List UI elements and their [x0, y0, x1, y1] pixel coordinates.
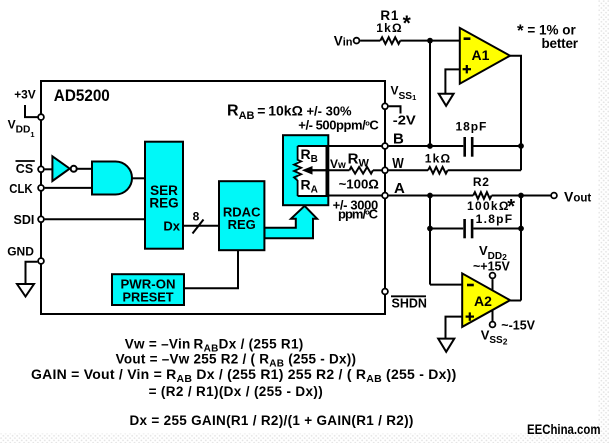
ground symbol (A2): [438, 339, 454, 352]
IC AD5200 boundary box: [41, 81, 385, 314]
wire Vin to R1: [360, 40, 380, 42]
terminal Vout: [551, 193, 557, 199]
A1 minus sign: [464, 37, 471, 40]
wire A1 output down to W line: [510, 56, 521, 171]
A2 plus sign: [466, 312, 474, 320]
op-amp A2: [462, 273, 510, 327]
svg-text:A2: A2: [474, 293, 492, 309]
wire inverter to AND gate: [77, 168, 92, 170]
wire to A2 inverting input: [430, 284, 462, 286]
wire CS to inverter: [45, 168, 53, 170]
wire W to 1k: [389, 169, 428, 171]
A1 plus sign: [463, 65, 471, 73]
wire B to 18pF: [389, 145, 464, 147]
wiper arrow Vw: [302, 166, 328, 175]
potentiometer resistor loop (white): [298, 146, 327, 196]
wire AND gate to SER REG: [132, 177, 145, 179]
junction A1 output / B feedback: [518, 143, 524, 149]
svg-text:SHDN: SHDN: [392, 297, 427, 311]
wire R2 to Vout: [492, 195, 551, 197]
pin B: [382, 143, 388, 149]
svg-text:ppm/oC: ppm/oC: [338, 207, 379, 222]
wire GND to ground: [26, 262, 38, 284]
block SER REG: [145, 142, 183, 249]
terminal VDD2: [490, 273, 496, 279]
wire A junction down to A2 input: [429, 196, 431, 285]
wire +3V to VDD1: [25, 105, 38, 117]
junction B line: [427, 143, 433, 149]
svg-text:better: better: [542, 36, 579, 51]
pin GND: [38, 258, 44, 264]
svg-text:REG: REG: [149, 195, 178, 210]
block PWR-ON PRESET: [112, 274, 184, 305]
pin CLK: [38, 185, 44, 191]
pin A: [382, 193, 388, 199]
svg-text:100kΩ: 100kΩ: [467, 199, 510, 213]
svg-text:CLK: CLK: [9, 182, 32, 196]
resistor RW: [349, 167, 373, 174]
wire wiper to RW: [312, 169, 349, 171]
svg-text:+3V: +3V: [14, 88, 36, 102]
wire R1 to A1 inverting input: [400, 40, 460, 42]
svg-text:Vin: Vin: [334, 34, 353, 49]
wire RW to pin W: [373, 169, 382, 171]
junction 1.8pF left: [427, 226, 433, 232]
capacitor 18pF: [465, 137, 473, 157]
svg-text:~+15V: ~+15V: [473, 260, 511, 274]
block arrow RDAC to potentiometer: [265, 206, 318, 238]
junction A line: [427, 193, 433, 199]
pin SHDN: [382, 289, 388, 295]
wire 18pF to A1 output line: [474, 145, 522, 147]
resistor R1: [380, 37, 400, 44]
bus slash: [193, 220, 204, 234]
svg-text:~100Ω: ~100Ω: [339, 176, 380, 191]
bracket VSS1 to -2V: [389, 106, 401, 113]
label CS (overbar): [16, 161, 35, 176]
inverter U3: [52, 156, 76, 181]
ground symbol (A1): [439, 94, 454, 106]
svg-text:18pF: 18pF: [456, 119, 488, 133]
svg-text:A1: A1: [472, 47, 490, 63]
wire SDI to SER REG: [45, 218, 145, 220]
pin VDD1: [38, 114, 44, 120]
junction 1.8pF right: [518, 226, 524, 232]
svg-text:Dx: Dx: [163, 219, 180, 234]
junction R2 output: [518, 193, 524, 199]
wire pot A to pin A: [327, 195, 382, 197]
svg-text:8: 8: [193, 210, 200, 224]
svg-text:R2: R2: [473, 175, 490, 189]
label SHDN (overbar): [391, 296, 427, 310]
potentiometer block (cyan): [283, 135, 328, 205]
svg-text:~-15V: ~-15V: [501, 319, 535, 333]
svg-text:= (R2 / R1)(Dx / (255 - Dx)): = (R2 / R1)(Dx / (255 - Dx)): [149, 384, 323, 399]
wire PWR-ON PRESET to RDAC REG: [184, 250, 238, 288]
wire 1.8pF to output vertical: [473, 228, 521, 230]
svg-text:1kΩ: 1kΩ: [376, 21, 403, 35]
AND gate U2: [92, 162, 132, 195]
svg-text:EEChina.com: EEChina.com: [527, 422, 601, 437]
svg-text:SDI: SDI: [14, 213, 35, 227]
svg-text:1kΩ: 1kΩ: [425, 151, 452, 165]
svg-text:B: B: [393, 131, 404, 148]
svg-text:CS: CS: [16, 162, 33, 176]
svg-text:A: A: [394, 180, 405, 197]
svg-text:GND: GND: [7, 244, 34, 258]
resistor R2: [473, 192, 491, 199]
wire A to R2: [389, 195, 474, 197]
block RDAC REG: [219, 181, 264, 250]
svg-text:1.8pF: 1.8pF: [476, 212, 514, 226]
terminal Vin: [354, 38, 360, 44]
pin SDI: [38, 216, 44, 222]
wire pot B to pin B: [327, 145, 382, 147]
svg-text:PRESET: PRESET: [123, 289, 174, 304]
resistor 1k (W row): [428, 167, 448, 174]
wire junction down to B line: [429, 41, 431, 146]
pin VDD2 stub: [492, 279, 494, 290]
capacitor 1.8pF: [465, 219, 473, 238]
ground symbol (GND pin): [17, 284, 34, 297]
terminal VSS2: [490, 322, 496, 328]
wire A1 + input to ground: [445, 69, 459, 93]
op-amp A1: [460, 28, 510, 84]
wire 1k to A1 output vertical: [448, 169, 521, 171]
A2 minus sign: [467, 284, 474, 287]
wire CLK to AND gate: [45, 187, 92, 189]
wire to 1.8pF: [430, 228, 463, 230]
svg-text:Dx = 255 GAIN(R1 / R2)/(1 + GA: Dx = 255 GAIN(R1 / R2)/(1 + GAIN(R1 / R2…: [130, 413, 414, 428]
svg-text:-2V: -2V: [393, 113, 416, 128]
pin CS: [38, 166, 44, 172]
wire R2 junction down to A2 output: [520, 196, 522, 301]
wire A2 + input to ground: [446, 317, 463, 339]
svg-text:AD5200: AD5200: [54, 87, 110, 105]
svg-text:REG: REG: [228, 217, 256, 232]
pin VSS2 stub: [492, 310, 494, 321]
resistor element (vertical zigzag): [294, 146, 301, 196]
pin VSS1: [382, 103, 388, 109]
junction at R1 output: [427, 38, 433, 44]
svg-text:*: *: [403, 12, 412, 35]
wire Dx bus SER to RDAC: [183, 225, 219, 227]
svg-text:Vw: Vw: [330, 157, 346, 171]
wire A2 output: [510, 300, 521, 302]
pin W: [382, 167, 388, 173]
